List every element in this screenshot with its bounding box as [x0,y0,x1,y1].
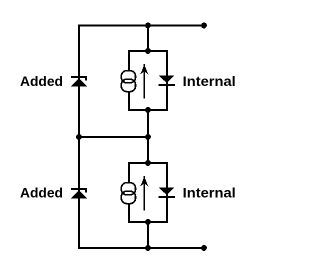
current arrow I1 [140,64,148,99]
current arrow I2 [140,176,148,211]
current source I1 [121,71,135,92]
junction dot loop2 bottom [145,219,151,225]
wire top bus [78,25,204,27]
diode D1 added (cathode top, anode bottom) [71,77,87,86]
wire middle tie [78,136,148,138]
svg-text:Added: Added [20,185,63,200]
junction dot loop2 top [145,160,151,166]
diode D2 internal (anode top, cathode bottom) [159,188,175,197]
svg-text:Internal: Internal [183,74,236,89]
junction dot loop1 bottom [145,107,151,113]
wire right column [147,25,149,51]
cell 1 loop [129,51,167,110]
current source I2 [121,183,135,204]
terminal dot bottom right [201,245,207,251]
diode D2 added (cathode top, anode bottom) [71,189,87,198]
junction dot bottom mid [145,245,151,251]
cell 2 loop [129,163,167,222]
junction dot middle right [145,134,151,140]
diode D1 internal (anode top, cathode bottom) [159,76,175,85]
junction dot middle left [76,134,82,140]
svg-text:Internal: Internal [183,185,236,200]
junction dot top mid [145,23,151,29]
wire bottom bus [78,247,204,249]
terminal dot top right [201,23,207,29]
wire left bus [78,25,80,249]
svg-text:Added: Added [20,74,63,89]
junction dot loop1 top [145,48,151,54]
